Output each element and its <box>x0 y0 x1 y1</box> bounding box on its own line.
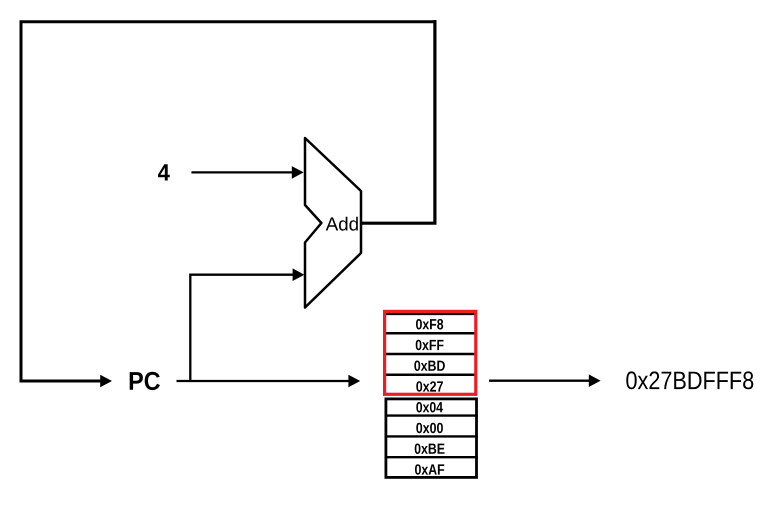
label 4 <box>158 164 170 180</box>
arrowhead: 4 into adder <box>292 166 304 179</box>
memory lower box (rows 5-8) <box>386 399 477 478</box>
memory cell value 0xAF <box>415 464 444 475</box>
wire: PC output to instruction memory <box>177 380 349 382</box>
label 0x27BDFFF8 <box>626 371 753 389</box>
adder Add (ALU shape) <box>305 138 361 308</box>
memory cell value 0xBE <box>415 444 445 455</box>
memory cell value 0xFF <box>416 340 444 351</box>
wire: adder output to top-right corner (feedback) <box>360 20 435 223</box>
red highlight box around fetched word <box>385 311 476 394</box>
memory row separator 7 <box>385 456 478 458</box>
memory cell value 0x04 <box>416 402 443 413</box>
arrowhead: loop wire into PC <box>100 375 112 388</box>
label Add <box>326 217 358 231</box>
arrowhead: memory output <box>589 374 601 387</box>
memory cell value 0x00 <box>416 423 443 434</box>
memory row separator 5 <box>385 414 478 416</box>
memory cell value 0xF8 <box>416 319 443 330</box>
arrowhead: PC branch into adder <box>293 268 305 281</box>
label PC <box>130 372 160 390</box>
memory cell value 0x27 <box>416 381 443 392</box>
wire: PC branch up to adder lower input <box>190 275 293 381</box>
memory cell value 0xBD <box>414 361 445 372</box>
wire: constant 4 into adder upper input <box>191 171 292 173</box>
arrowhead: PC wire into memory <box>348 375 360 388</box>
wire: feedback loop top/left into PC <box>21 22 436 381</box>
memory row separator 1 <box>386 332 476 334</box>
memory row separator 6 <box>385 435 478 437</box>
memory row separator 2 <box>386 353 476 355</box>
wire: memory output to result <box>489 380 589 382</box>
memory row separator 3 <box>386 374 476 376</box>
memory upper cell top border <box>386 313 476 315</box>
